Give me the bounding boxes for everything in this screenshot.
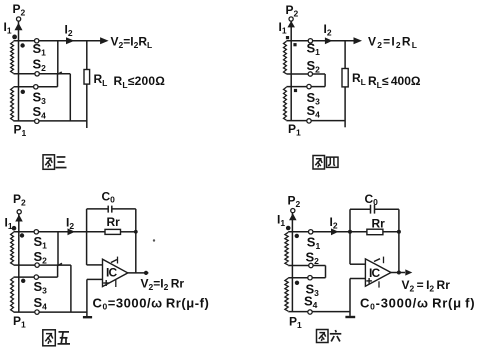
wire junction vertical A fig5 — [57, 232, 59, 265]
terminal S1 fig3 — [35, 39, 39, 43]
op-amp top tick fig5 — [117, 257, 119, 264]
svg-text:RL≤ 400Ω: RL≤ 400Ω — [368, 74, 421, 90]
wire bottom line fig5 — [13, 311, 87, 313]
winding S3-S4 coil fig6 — [285, 278, 288, 311]
wire S2 line fig6 — [288, 265, 325, 267]
terminal P2 fig4 — [289, 17, 293, 21]
polarity dot winding S1-S2 fig3 — [20, 43, 24, 47]
caption fig3 char san — [56, 157, 67, 168]
terminal S1 fig5 — [34, 230, 38, 234]
caption fig6 char liu — [330, 330, 342, 341]
caption fig4 char tu — [313, 156, 325, 170]
wire top line fig3 — [14, 40, 102, 42]
arrow I2 fig4 — [325, 37, 333, 44]
ground fig6 — [345, 316, 355, 318]
wire junction vertical C fig5 — [57, 265, 59, 277]
junction dot output fig6 — [397, 271, 401, 275]
svg-text:V2=I2RL: V2=I2RL — [368, 35, 418, 51]
wire C0 branch top right segment fig6 — [375, 208, 399, 210]
polarity dot winding S3-S4 fig6 — [295, 281, 299, 285]
polarity dot winding S1-S2 fig6 — [295, 234, 299, 238]
terminal P2 fig3 — [17, 17, 21, 21]
winding S1-S2 coil fig3 — [11, 42, 14, 74]
polarity dot winding S3-S4 fig5 — [21, 279, 25, 283]
terminal S3 fig6 — [308, 276, 312, 280]
wire feedback right vertical fig6 — [398, 209, 400, 272]
resistor Rr fig5 — [105, 229, 121, 234]
op-amp bottom tick fig6 — [378, 281, 380, 287]
arrow I2 fig5 — [68, 228, 76, 235]
wire top line fig5 — [14, 231, 106, 233]
wire S3 line fig4 — [286, 86, 325, 88]
terminal P2 fig6 — [291, 209, 295, 213]
wire S2 line fig4 — [286, 73, 325, 75]
wire series jog vertical fig6 — [325, 266, 327, 278]
caption fig4 char si — [327, 157, 339, 167]
arrow output fig6 — [405, 269, 412, 275]
wire inverting input fig5 — [86, 232, 88, 265]
terminal S4 fig3 — [35, 119, 39, 123]
junction dot node B fig5 — [134, 230, 138, 234]
wire RL bottom lead with stub fig3 — [86, 84, 88, 128]
wire jog at S2 junction fig3 — [58, 72, 62, 74]
caption fig5 char tu — [43, 330, 56, 346]
terminal S1 fig6 — [309, 230, 313, 234]
wire RL bottom lead with stub fig4 — [344, 87, 346, 127]
polarity dot winding S1-S2 fig5 — [20, 233, 24, 237]
terminal S2 fig4 — [308, 72, 312, 76]
wire non-inverting input fig6 — [350, 278, 365, 280]
ground fig5 — [83, 316, 92, 318]
wire feedback right vertical fig5 — [135, 209, 137, 273]
wire junction vertical A fig3 — [57, 41, 59, 74]
arrow I2 fig3 — [66, 37, 75, 44]
terminal S1 fig4 — [308, 39, 312, 43]
svg-text:V2=I2RL: V2=I2RL — [111, 35, 153, 51]
terminal S4 fig4 — [307, 119, 311, 123]
junction dot node B fig6 — [397, 230, 401, 234]
wire S2 line fig5 — [14, 264, 71, 266]
op-amp minus mark fig5 — [111, 260, 117, 263]
svg-text:RL≤200Ω: RL≤200Ω — [114, 74, 166, 90]
caption fig6 char tu — [317, 330, 329, 343]
resistor RL fig3 — [84, 70, 90, 85]
svg-text:Rr: Rr — [107, 215, 121, 229]
op-amp minus mark fig6 — [374, 259, 380, 262]
terminal S4 fig5 — [35, 310, 39, 314]
op-amp bottom tick fig5 — [115, 280, 117, 287]
winding S3-S4 coil fig4 — [284, 87, 287, 120]
arrow output fig3 — [100, 37, 109, 44]
wire primary vertical fig4 — [290, 21, 292, 120]
wire C0 branch left vertical fig6 — [349, 209, 351, 232]
wire junction vertical C fig3 — [57, 74, 59, 87]
wire primary vertical fig6 — [291, 213, 293, 312]
wire RL top lead fig4 — [344, 41, 346, 69]
terminal P2 fig5 — [17, 210, 21, 214]
wire S3 line fig5 — [14, 276, 58, 278]
junction dot node A fig6 — [348, 230, 352, 234]
wire S2-S4 vertical B fig5 — [70, 265, 72, 312]
polarity dot primary fig6 — [286, 226, 291, 231]
wire bottom line fig3 — [13, 120, 87, 122]
svg-text:IC: IC — [106, 266, 118, 280]
arrow output fig4 — [354, 37, 363, 44]
wire primary vertical fig3 — [18, 21, 20, 121]
caption fig5 char wu — [58, 332, 71, 344]
terminal S2 fig5 — [35, 263, 39, 267]
winding S3-S4 coil fig3 — [11, 87, 14, 120]
caption fig3 char tu — [43, 155, 55, 170]
wire Rr right lead fig5 — [121, 231, 136, 233]
arrow I2 fig6 — [331, 228, 339, 235]
terminal S2 fig6 — [309, 263, 313, 267]
op-amp plus mark fig5 — [103, 282, 109, 284]
terminal S2 fig3 — [35, 72, 39, 76]
wire top line fig6 — [288, 231, 399, 233]
wire primary vertical fig5 — [18, 214, 20, 312]
polarity dot winding S3-S4 fig4 — [294, 89, 297, 92]
arrow I1 fig6 — [289, 213, 297, 220]
wire inverting input fig6 — [349, 232, 351, 264]
wire C0 branch top right segment fig5 — [112, 208, 136, 210]
svg-text:V2=I2 Rr: V2=I2 Rr — [141, 277, 185, 293]
capacitor C0 fig5 — [107, 206, 109, 213]
resistor Rr fig6 — [367, 229, 383, 235]
wire C0 branch left vertical fig5 — [86, 209, 88, 232]
polarity dot primary fig3 — [12, 35, 17, 40]
wire series jog vertical fig4 — [324, 74, 326, 87]
wire op-amp output fig5 — [128, 272, 149, 274]
wire RL top lead fig3 — [86, 41, 88, 70]
svg-text:C0=3000/ω Rr(μ-f): C0=3000/ω Rr(μ-f) — [93, 296, 210, 312]
terminal S3 fig3 — [34, 85, 38, 89]
terminal S3 fig5 — [34, 275, 38, 279]
wire top line fig4 — [286, 40, 355, 42]
wire bottom line fig6 — [288, 311, 350, 313]
wire op-amp output fig6 — [391, 272, 405, 274]
junction dot output fig5 — [144, 271, 148, 275]
wire S2 line fig3 — [14, 73, 71, 75]
wire jog at S2 junction fig5 — [58, 263, 62, 265]
polarity dot winding S1-S2 fig4 — [293, 43, 296, 46]
polarity dot primary fig4 — [286, 36, 289, 39]
resistor RL fig4 — [342, 69, 348, 87]
op-amp IC fig5 — [103, 259, 128, 286]
terminal S4 fig6 — [308, 310, 312, 314]
terminal S3 fig4 — [307, 84, 311, 88]
svg-text:Rr: Rr — [372, 217, 386, 231]
arrow I1 fig5 — [15, 215, 23, 222]
capacitor C0 fig6 — [370, 205, 372, 214]
stray mark fig5 — [153, 239, 155, 241]
svg-text:IC: IC — [369, 266, 381, 280]
svg-text:C0-3000/ω Rr(μ f): C0-3000/ω Rr(μ f) — [360, 296, 475, 312]
polarity dot primary fig5 — [12, 226, 17, 231]
op-amp plus mark fig6 — [366, 280, 372, 282]
arrow I1 fig4 — [287, 21, 295, 28]
arrow I1 fig3 — [15, 23, 23, 31]
op-amp top tick fig6 — [383, 257, 385, 264]
wire S2-S4 vertical B fig3 — [69, 74, 71, 121]
winding S1-S2 coil fig6 — [285, 232, 288, 265]
wire C0 branch top left segment fig6 — [350, 208, 370, 210]
polarity dot winding S3-S4 fig3 — [21, 90, 25, 94]
svg-text:V2 = I2 Rr: V2 = I2 Rr — [402, 278, 451, 294]
wire S3 line fig3 — [14, 86, 58, 88]
wire S3 line fig6 — [288, 277, 325, 279]
winding S1-S2 coil fig4 — [284, 41, 287, 74]
winding S1-S2 coil fig5 — [11, 232, 14, 264]
winding S3-S4 coil fig5 — [11, 278, 14, 312]
op-amp IC fig6 — [365, 259, 391, 286]
wire C0 branch top left segment fig5 — [87, 208, 108, 210]
wire non-inverting input fig5 — [87, 278, 103, 280]
wire bottom line fig4 — [286, 120, 345, 122]
